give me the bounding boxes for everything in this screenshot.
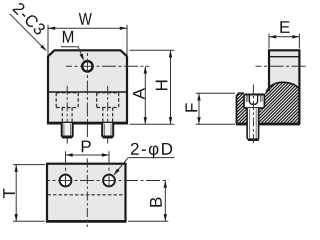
hole axis centerline bbox=[256, 65, 306, 67]
holes horizontal centerline (B datum) bbox=[48, 180, 168, 182]
screw hex socket bbox=[249, 95, 257, 105]
side view base body fill bbox=[237, 93, 270, 124]
hole vertical centerline left (P ext) bbox=[65, 151, 67, 188]
E dimension extension lines bbox=[268, 34, 270, 49]
T dimension extension lines bbox=[13, 164, 45, 166]
hole M vertical centerline bbox=[86, 53, 88, 138]
P dimension line with arrows bbox=[66, 154, 110, 156]
hidden counterbore outline (right) bbox=[97, 93, 119, 123]
stud centerline left bbox=[66, 86, 68, 144]
side view column body fill bbox=[269, 50, 299, 124]
front view bottom edge bbox=[47, 122, 128, 125]
hole phiD right bbox=[103, 175, 115, 187]
stud centerline right bbox=[107, 86, 109, 144]
T dimension line with arrows bbox=[15, 165, 17, 222]
screw thread lines bbox=[249, 109, 251, 140]
label F bbox=[186, 103, 198, 111]
label E bbox=[280, 21, 289, 33]
fillet dome outline bbox=[266, 82, 299, 93]
hidden counterbore outline (left) bbox=[56, 93, 78, 123]
E dimension line with arrows bbox=[269, 36, 299, 38]
tapped hole M circle bbox=[82, 61, 92, 71]
F dimension extension lines bbox=[196, 92, 235, 94]
leader line for 2-C3 chamfer note bbox=[10, 14, 46, 51]
screw head knurl lines bbox=[246, 95, 262, 101]
F dimension line with arrows bbox=[198, 93, 200, 124]
B dimension extension line bbox=[128, 220, 168, 222]
leader underline for 2-phiD bbox=[128, 157, 174, 159]
W dimension extension lines bbox=[47, 25, 49, 57]
label A bbox=[133, 88, 145, 99]
plan view hidden edge line bbox=[48, 194, 126, 196]
label M bbox=[63, 31, 73, 43]
label 2-C3 bbox=[12, 2, 46, 36]
label H bbox=[156, 81, 168, 91]
plan view vertical centerline bbox=[86, 159, 88, 228]
label P bbox=[82, 141, 91, 153]
hole M horizontal centerline (A datum) bbox=[66, 65, 149, 67]
front view: stopper block body with chamfered top corners bbox=[48, 50, 127, 123]
hole vertical centerline right (P ext) bbox=[108, 151, 110, 188]
label W bbox=[79, 13, 92, 25]
hole phiD left bbox=[60, 175, 72, 187]
A dimension line with arrows bbox=[144, 66, 146, 124]
plan view rectangle body bbox=[47, 164, 126, 222]
leader line for M bbox=[61, 47, 83, 59]
base outline with chamfer bbox=[237, 93, 245, 124]
threaded stud (right) bbox=[102, 123, 113, 138]
label B bbox=[150, 198, 162, 207]
column outline bbox=[269, 50, 299, 124]
screw head bbox=[244, 95, 264, 108]
label 2-phiD bbox=[131, 143, 172, 158]
screw shank bbox=[247, 108, 259, 140]
threaded stud (left) bbox=[62, 123, 73, 138]
label T bbox=[3, 189, 15, 199]
column top inner line bbox=[269, 56, 299, 58]
plan view bottom edge bbox=[46, 220, 126, 223]
part bottom edge bbox=[236, 123, 300, 126]
H dimension extension lines bbox=[130, 49, 175, 51]
screw centerline bbox=[252, 85, 254, 145]
B dimension line with arrows bbox=[164, 181, 166, 222]
W dimension line with arrows bbox=[48, 27, 127, 29]
front view step edge line bbox=[48, 91, 126, 93]
H dimension line with arrows bbox=[170, 50, 172, 124]
leader diagonal for 2-phiD bbox=[114, 158, 128, 175]
